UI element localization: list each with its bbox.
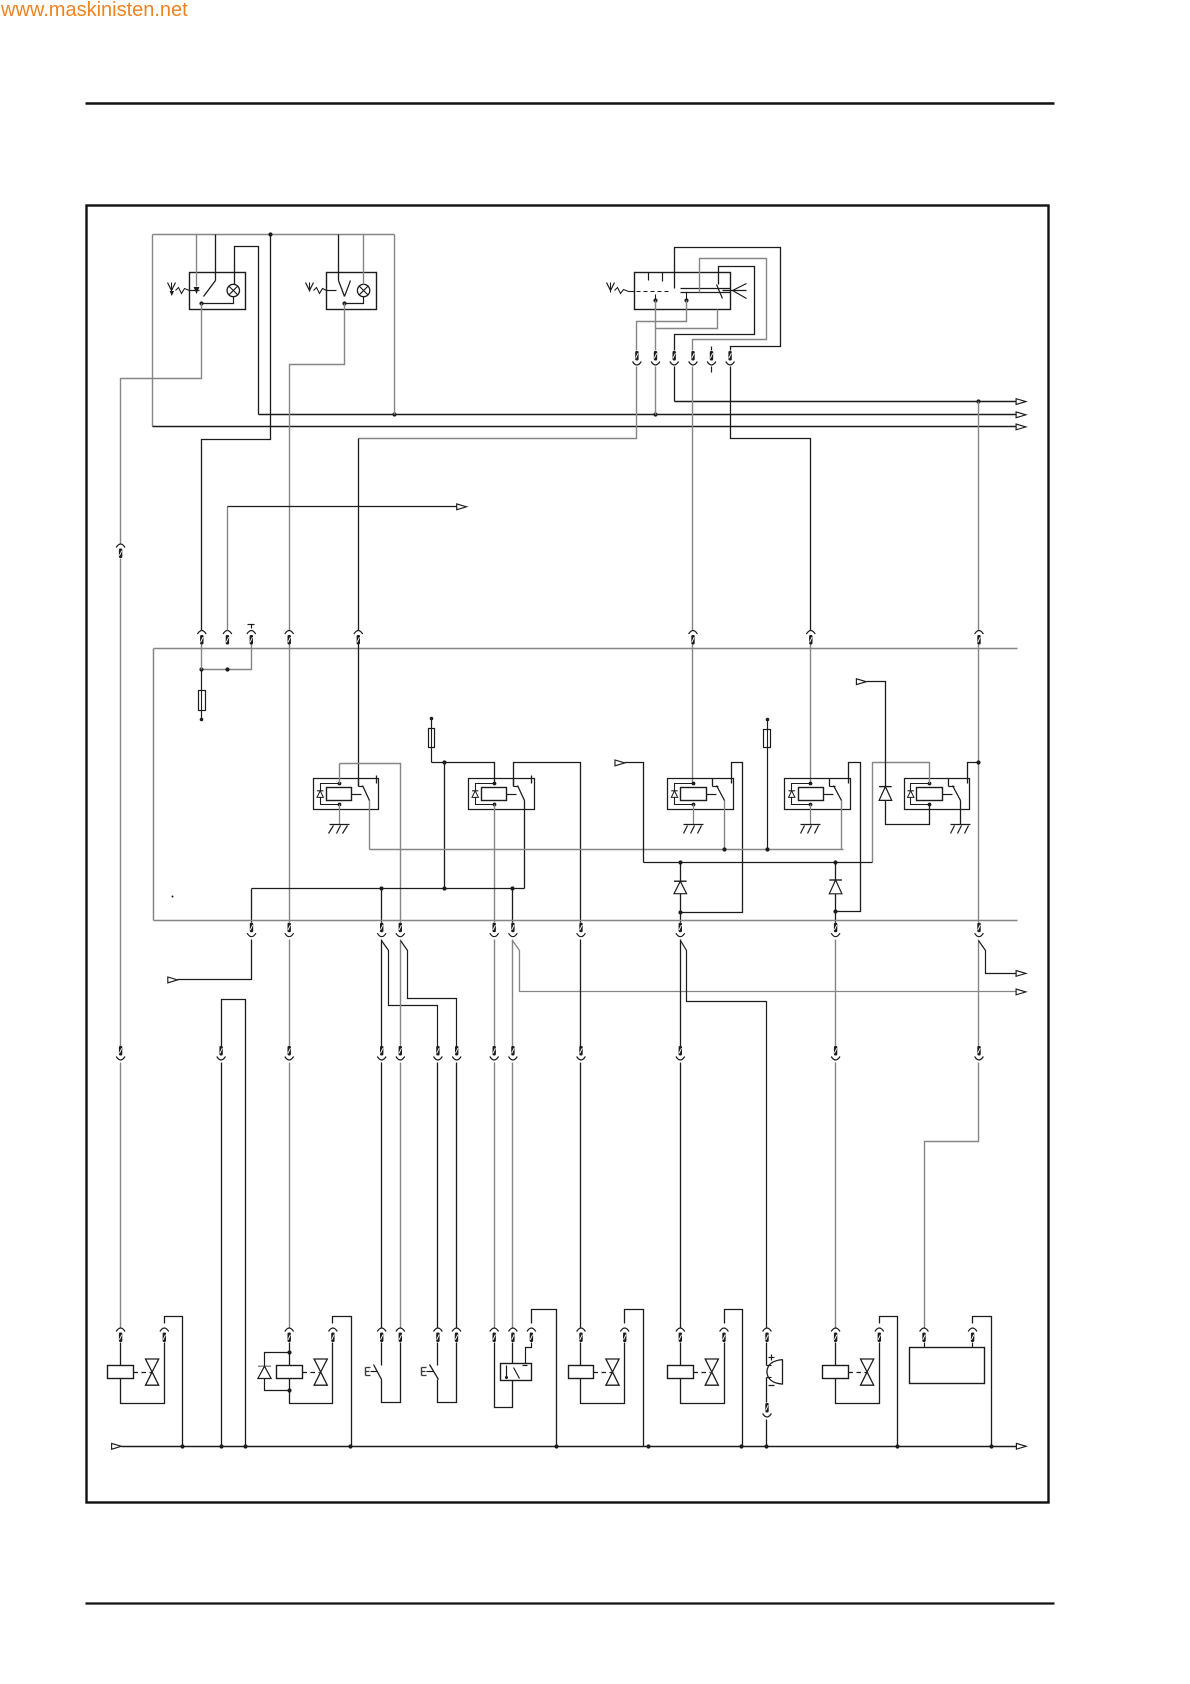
- relay K2: [469, 776, 535, 810]
- connector R2-a: [247, 923, 256, 937]
- indicator lamp unit H2 box: [327, 273, 377, 310]
- wire R3-d down: [381, 1063, 383, 1328]
- H2 switch feed wire: [338, 235, 340, 281]
- bus line 3: [122, 1446, 1017, 1448]
- connector R2-g: [577, 923, 586, 937]
- H2 actuator symbol: [306, 283, 327, 294]
- wire R3-b down: [221, 1063, 223, 1447]
- K4 output wire: [841, 801, 843, 850]
- wire return end down: [251, 889, 253, 923]
- ground K3: [684, 825, 704, 834]
- H1 switch contact: [190, 235, 216, 297]
- A1 right connector: [968, 1328, 977, 1348]
- terminal tick R1-c: [248, 625, 255, 629]
- connector R3-k: [676, 1046, 685, 1060]
- L2 top wire: [363, 235, 365, 285]
- wire R2-a to arrow3: [178, 940, 252, 980]
- bus line 2: [154, 920, 1018, 922]
- arrow in 4: [112, 1443, 122, 1449]
- wire F2 to K2 coil: [432, 763, 495, 784]
- wire D2: [835, 863, 837, 912]
- node D2 bottom: [833, 909, 837, 913]
- K3 output wire: [724, 801, 726, 850]
- node return-1: [379, 886, 383, 890]
- L1 bottom wire: [202, 297, 234, 304]
- K4 coil ground wire: [810, 805, 812, 825]
- M1 loop wire pin4: [693, 259, 767, 351]
- connector R1-d: [285, 631, 294, 645]
- M1 internal dashed link: [629, 291, 669, 293]
- bus3 node: [219, 1444, 223, 1448]
- connector R3-h: [490, 1046, 499, 1060]
- stray mark: [172, 896, 174, 898]
- solenoid valve Y1: [108, 1317, 183, 1447]
- wire R3-h down: [494, 1063, 496, 1328]
- wiper motor unit M1 box: [635, 273, 731, 310]
- connector R3-c: [285, 1046, 294, 1060]
- bus line A: [675, 401, 1017, 403]
- diode D3: [879, 787, 892, 801]
- switch S2 branch: [401, 941, 457, 1047]
- M1 internal node 1: [653, 295, 657, 303]
- solenoid valve Y3: [569, 1310, 644, 1447]
- wire M1-4 down: [692, 367, 694, 631]
- wire arrow spur: [227, 507, 229, 631]
- indicator lamp unit H1 box: [190, 273, 246, 310]
- Y2 diode loop: [258, 1350, 292, 1392]
- connector R3-i: [509, 1046, 518, 1060]
- arrow in 1: [615, 760, 625, 766]
- wire F2 branch down: [444, 763, 446, 889]
- switch S7: [422, 1328, 461, 1403]
- wire R2-b down: [289, 940, 291, 1047]
- K2 output wire: [524, 801, 526, 889]
- connector R2-e: [490, 923, 499, 937]
- node A1: [976, 399, 980, 403]
- node contact-K3: [722, 847, 726, 851]
- relay K5: [905, 776, 970, 810]
- arrow out S5: [1016, 971, 1026, 977]
- wire M1-2 to bus B: [655, 367, 657, 415]
- node return-2: [442, 886, 446, 890]
- wire top feed drop: [202, 235, 271, 631]
- connector R3-g: [452, 1046, 461, 1060]
- connector R3-f: [434, 1046, 443, 1060]
- wire R3-k down: [680, 1063, 682, 1328]
- fuse F1 feed: [202, 645, 252, 670]
- connector R3-j: [577, 1046, 586, 1060]
- arrow out S3: [1016, 989, 1026, 995]
- wire R2-i down: [835, 940, 837, 1047]
- connector M1-4: [689, 351, 698, 365]
- H2 output wire: [290, 304, 345, 631]
- connector R3-l: [831, 1046, 840, 1060]
- node F1-2: [225, 667, 229, 671]
- node B1: [392, 412, 396, 416]
- M1 internal node 2: [684, 293, 688, 303]
- switch S5 branch: [979, 941, 1017, 974]
- bus line 1: [154, 648, 1018, 650]
- A1 bracket: [973, 1317, 992, 1447]
- K1 output wire: [369, 801, 371, 850]
- connector R2-d: [396, 923, 405, 937]
- wire M1-6 down: [731, 367, 811, 631]
- connector X1: [116, 544, 125, 558]
- wire R1-e to K1: [358, 645, 360, 787]
- connector R1-g: [806, 631, 815, 645]
- svg-text:www.maskinisten.net: www.maskinisten.net: [0, 0, 188, 21]
- fuse F3: [764, 718, 771, 850]
- solenoid valve Y5: [823, 1317, 898, 1447]
- node D2 top: [833, 860, 837, 864]
- node D1 bottom: [678, 910, 682, 914]
- switch S6: [366, 1328, 405, 1403]
- bus3 node: [895, 1444, 899, 1448]
- H1 contact node: [199, 301, 203, 305]
- wire R2-j down: [978, 940, 980, 1047]
- wire R3-g down: [456, 1063, 458, 1328]
- K2 common loop: [514, 763, 581, 923]
- wire R1-h down: [978, 645, 980, 923]
- wire top supply line: [153, 234, 395, 236]
- connector R3-m: [975, 1046, 984, 1060]
- wire R1-d down: [289, 645, 291, 923]
- wire R2-e down: [494, 940, 496, 1047]
- wire return tap1: [381, 889, 383, 923]
- connector R1-c: [247, 631, 256, 645]
- bus line C: [153, 426, 1017, 428]
- bus3 node: [243, 1444, 247, 1448]
- M1 internal tick 2: [662, 273, 664, 282]
- fuse F1: [199, 670, 206, 720]
- connector M1-5: [707, 347, 716, 373]
- connector R2-h: [676, 923, 685, 937]
- bus line B: [259, 414, 1017, 416]
- K5 supply loop: [873, 763, 930, 863]
- wire trunk right: [978, 402, 980, 631]
- connector R1-e: [354, 631, 363, 645]
- M1 loop wire pin6: [675, 248, 781, 351]
- connector R2-i: [831, 923, 840, 937]
- connector R3-a: [116, 1046, 125, 1060]
- node on top supply line: [268, 232, 272, 236]
- wire R3-c down: [289, 1063, 291, 1328]
- solenoid valve Y4: [668, 1310, 743, 1447]
- bus3 node: [646, 1444, 650, 1448]
- wire R1-g to K4 coil: [810, 645, 812, 784]
- wire D3 to arrow: [867, 682, 886, 787]
- top horizontal rule: [86, 102, 1055, 105]
- K1 supply loop: [340, 764, 401, 923]
- M1 wire pin1: [637, 301, 687, 351]
- wire R2-d down: [400, 940, 402, 1047]
- connector R3-b: [217, 1046, 226, 1060]
- bottom horizontal rule: [86, 1602, 1055, 1604]
- control unit A1 box: [910, 1348, 985, 1384]
- bus3 node: [554, 1444, 558, 1448]
- wire R2-h down: [680, 940, 682, 1047]
- M1 commutator bars: [681, 289, 731, 293]
- wire R3-a down: [120, 1063, 122, 1328]
- connector M1-6: [726, 351, 735, 365]
- wire R1-f to K3 coil: [692, 645, 694, 784]
- L1 top wire: [235, 247, 259, 415]
- bus3 node: [764, 1444, 768, 1448]
- wire R3-j down: [580, 1063, 582, 1328]
- arrow spur line: [228, 506, 457, 508]
- K5 coil return loop: [886, 801, 930, 825]
- bus left tie: [153, 649, 155, 921]
- H1 switch feed wire: [196, 235, 198, 287]
- lamp L1: [227, 284, 239, 296]
- bridge link: [222, 1000, 246, 1447]
- relay return line: [252, 888, 525, 890]
- arrow in 3: [168, 977, 178, 983]
- bus3 node: [348, 1444, 352, 1448]
- connector R2-j: [975, 923, 984, 937]
- arrow in 2: [856, 679, 866, 685]
- wire R3-m down: [925, 1063, 979, 1328]
- switch S4 branch: [681, 941, 767, 1328]
- M1 actuator symbol: [607, 283, 629, 294]
- wire R2-c down: [381, 940, 383, 1047]
- diode D1: [674, 881, 687, 894]
- wire drop 394 to B: [394, 235, 396, 415]
- pressure switch B1: [490, 1310, 557, 1447]
- wire D1: [680, 863, 682, 913]
- connector M1-2: [651, 351, 660, 365]
- lamp L2: [357, 284, 369, 296]
- ground K1: [329, 825, 350, 834]
- L2 bottom wire: [345, 297, 364, 304]
- arrow out A: [1016, 399, 1026, 405]
- connector R1-a: [197, 631, 206, 645]
- relay K1: [314, 776, 379, 810]
- wire arrow1 drop: [625, 763, 644, 863]
- K4 fixed loop: [836, 763, 861, 912]
- relay K3: [668, 776, 734, 810]
- M1 internal tick 1: [648, 273, 650, 281]
- connector R1-h: [975, 631, 984, 645]
- H1 actuator symbol: [168, 283, 190, 297]
- relay K4: [785, 776, 851, 810]
- M1 loop wire pin3: [675, 267, 755, 351]
- H1 output wire: [121, 304, 202, 544]
- K2 coil return wire: [494, 805, 496, 923]
- H2 contact node: [342, 301, 346, 305]
- solenoid valve Y2: [277, 1317, 352, 1447]
- connector R3-d: [377, 1046, 386, 1060]
- node trunk right tap: [976, 760, 980, 764]
- K5 output wire: [960, 801, 962, 825]
- wire R2-g down: [580, 940, 582, 1047]
- ground K5: [951, 825, 971, 834]
- node D1 top: [678, 860, 682, 864]
- node F2 branch: [442, 760, 446, 764]
- node F1-1: [199, 645, 203, 672]
- connector R2-f: [509, 923, 518, 937]
- node contact-F3: [765, 847, 769, 851]
- wire R3-i down: [512, 1063, 514, 1328]
- connector R2-c: [377, 923, 386, 937]
- connector R2-b: [285, 923, 294, 937]
- wire R3-f down: [437, 1063, 439, 1328]
- wire X1 down: [120, 559, 122, 1047]
- arrow out C: [1016, 424, 1026, 430]
- bus3 node: [989, 1444, 993, 1448]
- wire R3-l down: [835, 1063, 837, 1328]
- node B2: [653, 412, 657, 416]
- terminal F1: [200, 718, 204, 722]
- node return-3: [510, 886, 514, 890]
- wire return tap3: [512, 889, 514, 923]
- connector M1-1: [633, 351, 642, 365]
- arrow out B: [1016, 412, 1026, 418]
- bus3 node: [180, 1444, 184, 1448]
- wire D1 to conn: [680, 913, 682, 923]
- connector R1-b: [223, 631, 232, 645]
- fuse F2: [429, 717, 435, 763]
- diode feed line: [644, 862, 873, 864]
- arrow out 5: [1016, 1443, 1026, 1449]
- switch S1 branch: [382, 941, 438, 1047]
- connector R3-e: [396, 1046, 405, 1060]
- diagram border frame: [87, 206, 1049, 1503]
- M1 output arrow symbol: [723, 284, 747, 299]
- arrow out mid: [457, 504, 467, 510]
- bus3 node: [739, 1444, 743, 1448]
- wire R2-f down: [512, 940, 514, 1047]
- wire M1-3 to bus A: [674, 367, 676, 402]
- K5 fixed loop: [968, 763, 979, 776]
- M1 brush slash: [717, 285, 723, 299]
- connector R1-f: [689, 631, 698, 645]
- M1 wire pin2: [656, 301, 718, 351]
- K3 fixed loop: [681, 763, 743, 913]
- wire R3-e down: [400, 1063, 402, 1328]
- switch S3 branch: [513, 941, 1017, 992]
- diode D2: [829, 880, 842, 894]
- wire left drop to bus C: [152, 235, 154, 427]
- connector M1-3: [670, 351, 679, 365]
- wire M1-1 to relay K1: [359, 367, 637, 631]
- K3 coil ground wire: [693, 805, 695, 825]
- page header link text: [0, 0, 188, 21]
- A1 left connector: [920, 1328, 929, 1348]
- contact bus line: [370, 849, 844, 851]
- ground K4: [801, 825, 821, 834]
- K1 coil ground wire: [339, 805, 341, 825]
- wire D2 to conn: [835, 912, 837, 923]
- horn H3: [763, 1328, 783, 1447]
- H2 switch contact: [327, 281, 351, 297]
